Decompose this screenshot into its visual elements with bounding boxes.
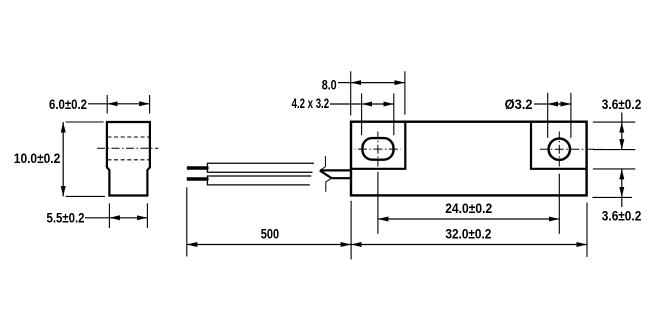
dim 4.2x3.2 line bbox=[362, 103, 394, 105]
cable break symbol upper tail bbox=[320, 156, 326, 171]
dim 4.2x3.2 ext line right bbox=[393, 93, 395, 135]
dim 6.0±0.2 ext line right bbox=[149, 95, 151, 114]
dim 4.2x3.2 leader bbox=[330, 103, 362, 105]
svg-text:8.0: 8.0 bbox=[322, 77, 337, 92]
dim 32.0±0.2 line bbox=[351, 244, 587, 246]
dim 8.0 line bbox=[351, 82, 405, 84]
dim 24.0±0.2 ext line left bbox=[377, 172, 379, 234]
dim 8.0 leader bbox=[338, 82, 351, 84]
dim 5.5±0.2 ext line left bbox=[108, 203, 110, 228]
dim 3.6±0.2 top line bbox=[621, 122, 623, 150]
dim 24.0±0.2 line bbox=[378, 218, 559, 220]
dim 4.2x3.2 ext line left bbox=[361, 93, 363, 135]
main body right step bbox=[531, 122, 587, 169]
dim 6.0±0.2 line bbox=[107, 103, 149, 105]
svg-text:3.6±0.2: 3.6±0.2 bbox=[602, 209, 642, 224]
svg-text:Ø3.2: Ø3.2 bbox=[505, 97, 533, 112]
dim 10.0±0.2 line bbox=[62, 122, 64, 196]
svg-text:6.0±0.2: 6.0±0.2 bbox=[49, 97, 87, 112]
dim 3.6±0.2 top ext line lower bbox=[593, 149, 635, 151]
side view body bbox=[107, 122, 150, 196]
dim 10.0±0.2 ext line top bbox=[66, 121, 104, 123]
dim Ø3.2 leader bbox=[534, 103, 548, 105]
wire 1 insulation outline bbox=[207, 163, 314, 172]
dim 8.0 ext line left bbox=[350, 71, 352, 115]
dim Ø3.2 ext line left bbox=[547, 93, 549, 138]
wire 2 insulation outline bbox=[207, 176, 311, 185]
main body left step bbox=[351, 122, 405, 169]
dim 5.5±0.2 ext line right bbox=[146, 203, 148, 228]
dim 32.0±0.2 shared ext line left bbox=[350, 201, 352, 260]
right hole Ø3.2 bbox=[549, 139, 570, 160]
svg-text:5.5±0.2: 5.5±0.2 bbox=[47, 210, 85, 225]
dim 6.0±0.2 leader bbox=[88, 103, 107, 105]
bare lead top bbox=[187, 166, 209, 169]
dim 3.6±0.2 top ext line upper bbox=[593, 121, 635, 123]
svg-text:500: 500 bbox=[261, 226, 279, 241]
svg-text:32.0±0.2: 32.0±0.2 bbox=[445, 227, 491, 242]
dim 5.5±0.2 leader bbox=[85, 217, 109, 219]
dim 3.6±0.2 bottom ext line upper bbox=[593, 168, 635, 170]
cable break symbol diagonal bbox=[320, 171, 332, 179]
dim 32.0±0.2 ext line right bbox=[586, 203, 588, 258]
dim 500 line bbox=[187, 244, 351, 246]
dim 10.0±0.2 ext line bottom bbox=[66, 195, 105, 197]
bare lead bottom bbox=[187, 177, 209, 180]
dim 3.6±0.2 bottom ext line lower bbox=[592, 196, 632, 198]
dim 3.6±0.2 bottom stem bbox=[621, 197, 623, 207]
dim 8.0 ext line right bbox=[404, 71, 406, 114]
cable break symbol top edge bbox=[320, 169, 352, 171]
dim 3.6±0.2 top stem bbox=[621, 113, 623, 123]
right hole vertical centerline bbox=[558, 132, 560, 167]
side view hidden slot top (dashed) bbox=[108, 136, 150, 138]
dim Ø3.2 ext line right bbox=[570, 93, 572, 138]
main body outline (top view) bbox=[351, 122, 587, 196]
dim Ø3.2 line bbox=[548, 103, 571, 105]
svg-text:24.0±0.2: 24.0±0.2 bbox=[445, 201, 492, 216]
left slot vertical centerline bbox=[377, 132, 379, 167]
cable break symbol bottom edge bbox=[332, 177, 352, 179]
dim 5.5±0.2 line bbox=[109, 217, 147, 219]
left slot hole 4.2x3.2 bbox=[362, 138, 393, 160]
right hole horizontal centerline bbox=[540, 148, 603, 150]
svg-text:4.2 x 3.2: 4.2 x 3.2 bbox=[292, 96, 330, 111]
dim 3.6±0.2 bottom line bbox=[621, 169, 623, 198]
side view centerline bbox=[97, 147, 159, 149]
svg-text:10.0±0.2: 10.0±0.2 bbox=[14, 151, 61, 166]
dim 500 ext line left bbox=[186, 187, 188, 256]
dim 6.0±0.2 ext line left bbox=[106, 95, 108, 114]
cable break symbol lower tail bbox=[326, 178, 332, 192]
left slot horizontal centerline bbox=[355, 148, 401, 150]
svg-text:3.6±0.2: 3.6±0.2 bbox=[602, 97, 642, 112]
dim 24.0±0.2 ext line right bbox=[558, 174, 560, 234]
side view hidden slot bottom (dashed) bbox=[108, 159, 150, 161]
